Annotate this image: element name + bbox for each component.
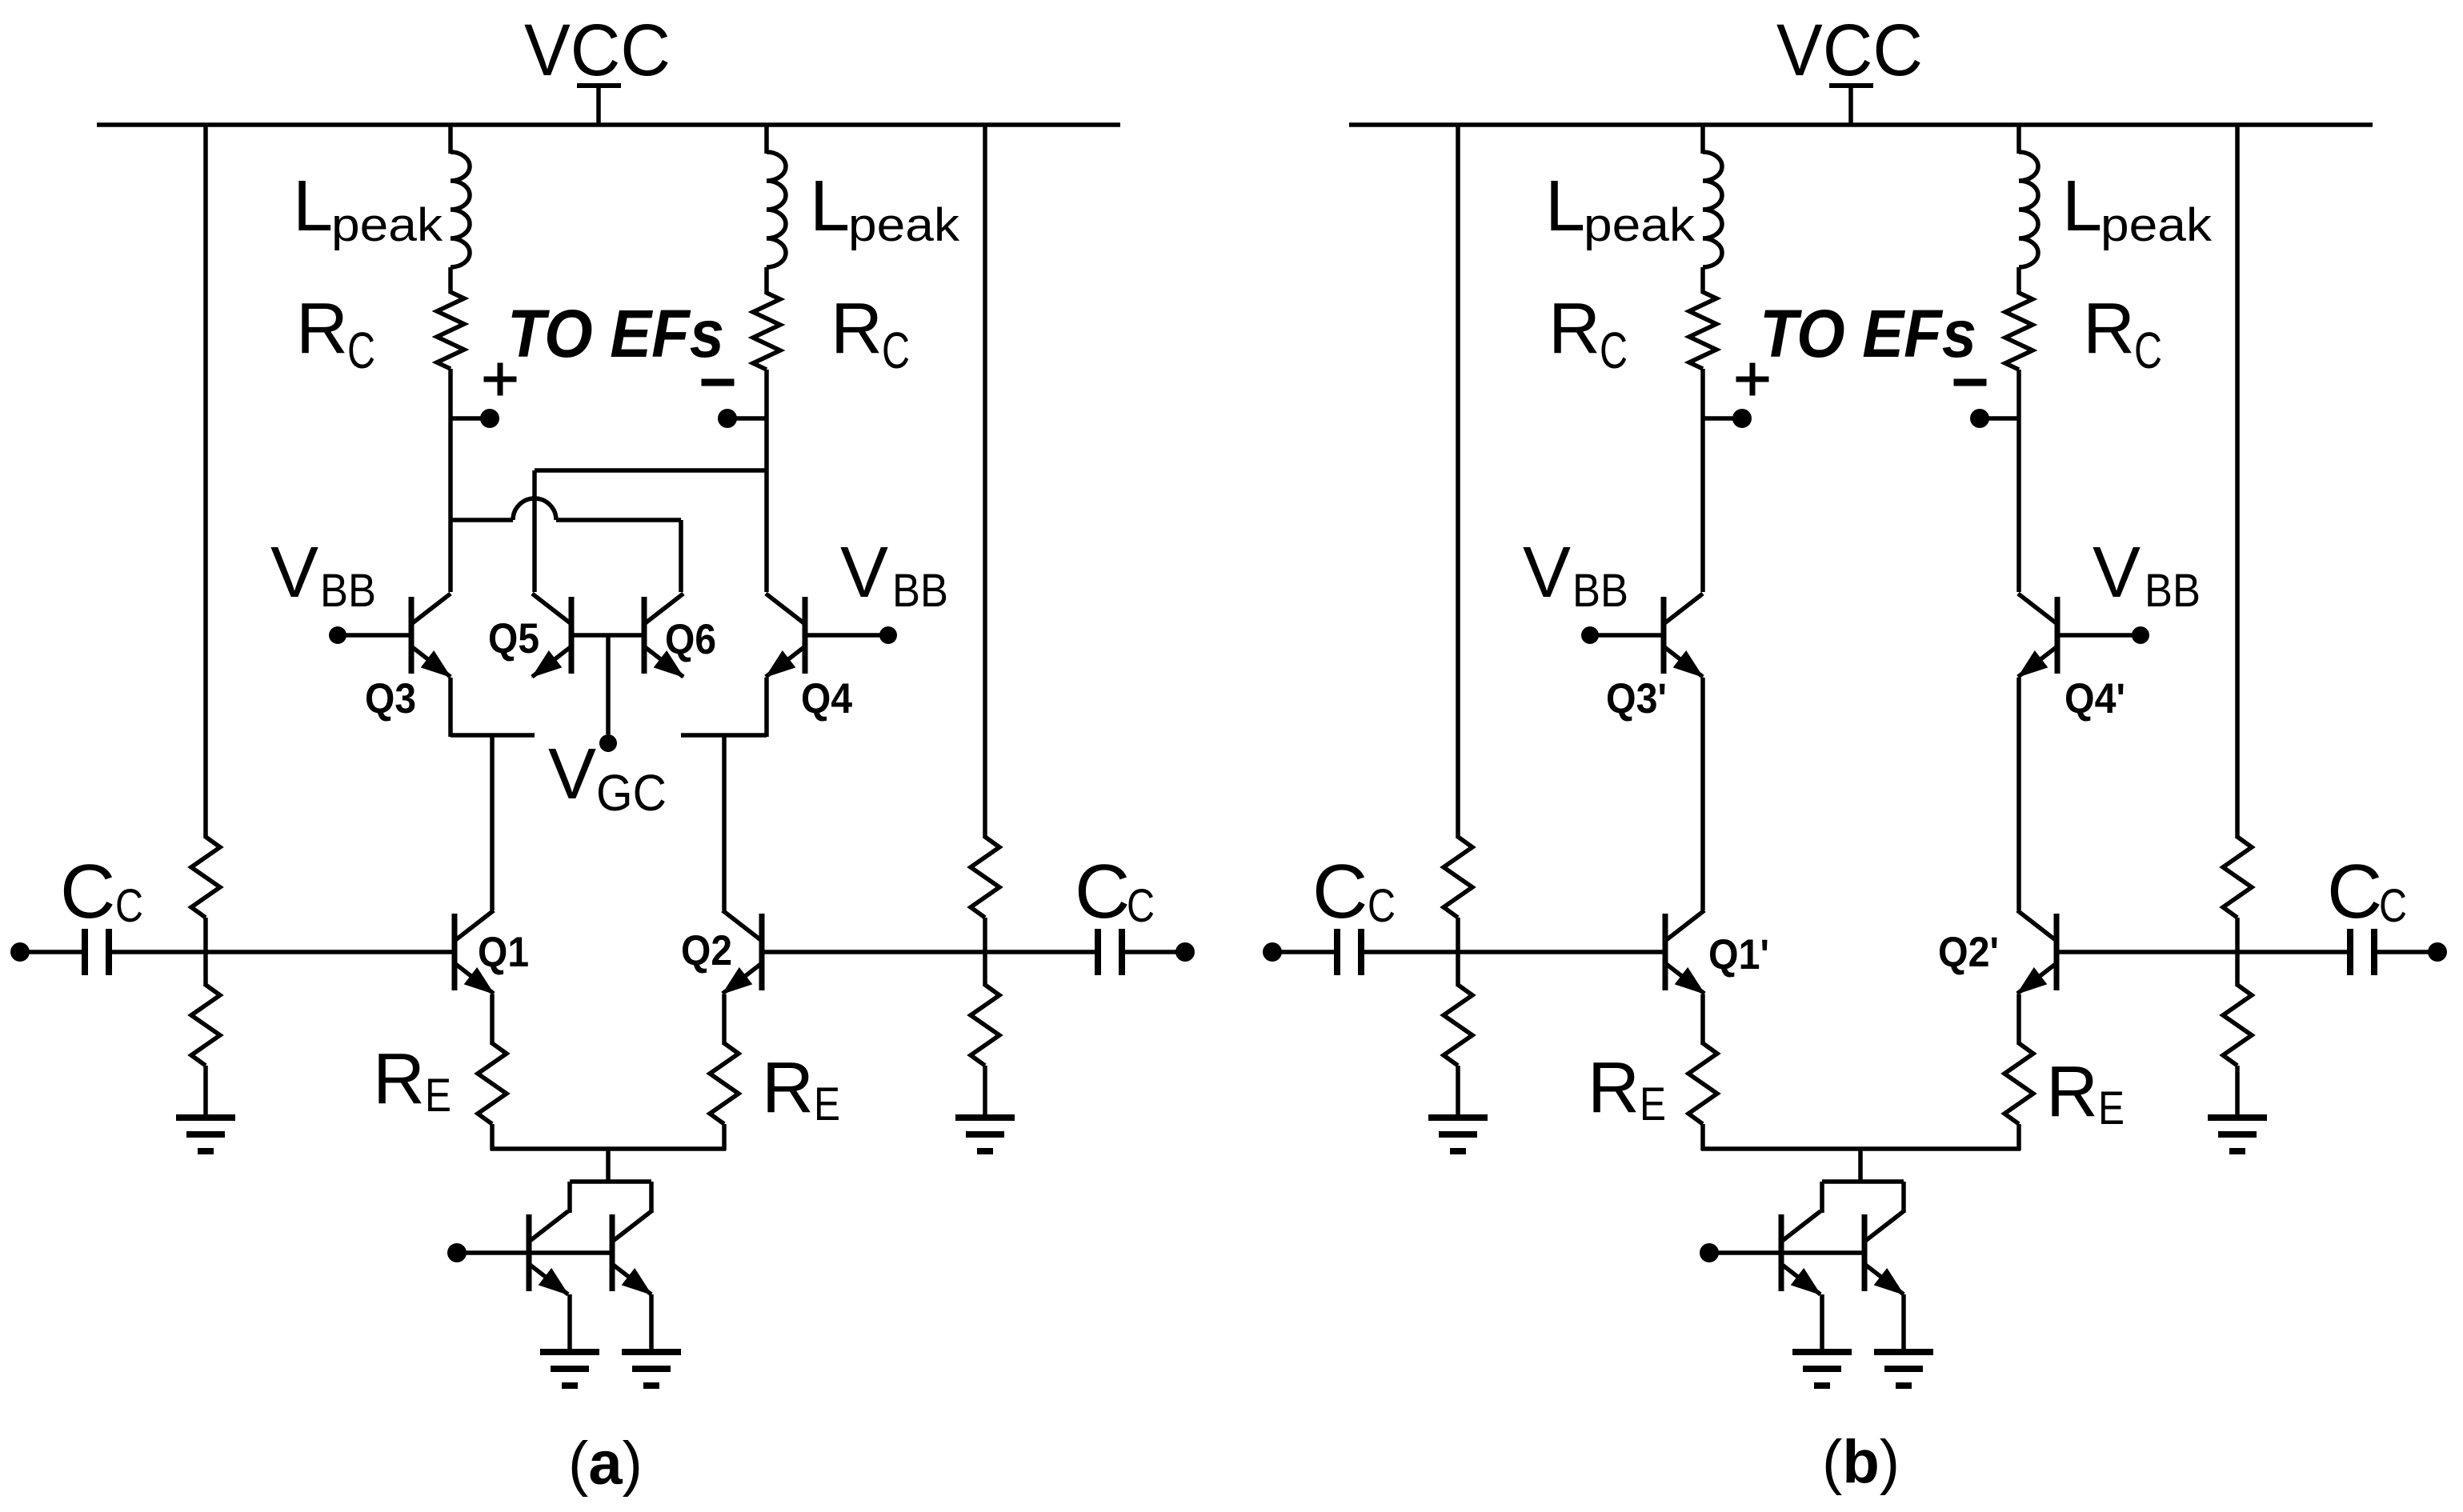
wire tail base	[457, 1250, 612, 1255]
wire input lead	[20, 950, 82, 954]
transistor Q5 collector	[532, 594, 571, 624]
inductor Lpeak right	[2019, 152, 2038, 267]
capacitor CC output	[2347, 929, 2353, 975]
svg-text:E: E	[425, 1070, 451, 1122]
transistor Q2' bar	[2054, 914, 2060, 990]
wire tail right collector	[1901, 1182, 1906, 1213]
svg-text:V: V	[548, 734, 596, 814]
transistor Q4' bar	[2055, 597, 2061, 674]
node output terminal	[2428, 942, 2447, 962]
transistor Q4 bar	[803, 597, 808, 674]
svg-text:C: C	[2379, 880, 2407, 932]
svg-text:Q3: Q3	[365, 675, 416, 722]
transistor tail mirror right emitter	[612, 1264, 651, 1294]
inductor Lpeak left	[451, 152, 470, 267]
transistor Q2' collector	[2017, 910, 2057, 941]
wire tail left emitter	[1820, 1294, 1824, 1354]
transistor tail mirror right collector	[612, 1211, 651, 1242]
inductor Lpeak right	[767, 152, 786, 267]
wire Q4' emitter to Q2' collector	[2016, 678, 2021, 910]
plus sign	[1736, 377, 1769, 382]
transistor Q3' collector	[1664, 594, 1703, 624]
transistor Q5 bar	[569, 597, 575, 674]
node - output dot	[1970, 409, 1989, 428]
wire left bias mid	[1456, 918, 1460, 986]
wire tail join	[491, 1146, 726, 1151]
wire input lead	[1272, 950, 1334, 954]
resistor RE right	[2004, 1043, 2033, 1124]
transistor Q4 collector	[766, 594, 805, 624]
svg-text:Q4: Q4	[801, 675, 852, 722]
node input terminal	[1263, 942, 1282, 962]
wire VCC rail	[97, 122, 1120, 127]
wire right branch from rail	[764, 125, 769, 154]
svg-text:C: C	[60, 849, 115, 934]
wire cross line B left	[451, 518, 513, 522]
ground tail left	[1792, 1349, 1852, 1355]
svg-text:Q2': Q2'	[1938, 929, 1999, 976]
svg-text:C: C	[1127, 880, 1155, 932]
svg-text:C: C	[1600, 322, 1628, 379]
transistor tail mirror left bar	[527, 1214, 532, 1291]
svg-text:BB: BB	[2145, 565, 2201, 617]
svg-text:E: E	[1640, 1078, 1666, 1130]
wire tail right emitter	[649, 1294, 654, 1354]
svg-text:R: R	[762, 1048, 814, 1128]
VCC supply symbol	[1829, 83, 1873, 88]
svg-text:R: R	[1588, 1048, 1640, 1128]
wire Q2 emitter to RE	[2016, 994, 2021, 1045]
wire left branch RC to cascode	[1700, 369, 1705, 592]
wire right bias mid	[2235, 918, 2240, 986]
transistor Q4 emitter	[766, 646, 805, 677]
svg-text:TO EFs: TO EFs	[507, 296, 724, 371]
svg-text:V: V	[2093, 533, 2141, 613]
node VBB left terminal	[329, 626, 346, 644]
resistor left bias lower	[191, 985, 220, 1066]
transistor tail mirror left emitter	[529, 1264, 568, 1294]
transistor Q1 collector	[455, 910, 494, 941]
transistor Q1' collector	[1665, 910, 1704, 941]
svg-text:L: L	[2062, 166, 2102, 246]
svg-text:BB: BB	[320, 565, 376, 617]
svg-text:R: R	[2083, 289, 2135, 369]
wire hop over Q5 collector	[513, 498, 556, 520]
wire right drop to Q2 collector	[722, 735, 727, 910]
svg-text:C: C	[2134, 322, 2162, 379]
plus sign	[484, 377, 517, 382]
svg-text:Q1: Q1	[478, 929, 529, 976]
wire tail collector rail	[1822, 1179, 1904, 1184]
svg-text:R: R	[1548, 289, 1600, 369]
transistor tail mirror right emitter	[1864, 1264, 1904, 1294]
wire left branch coil to RC	[448, 267, 453, 294]
node input terminal	[10, 942, 30, 962]
wire right branch RC to cascode	[764, 370, 769, 592]
svg-text:Q1': Q1'	[1708, 931, 1769, 978]
wire left bias to ground	[203, 1066, 208, 1118]
svg-text:Q5: Q5	[488, 615, 539, 662]
resistor RC right	[753, 293, 780, 370]
wire tail right emitter	[1901, 1294, 1906, 1354]
wire Q4 emitter down	[764, 678, 769, 737]
svg-text:BB: BB	[892, 565, 948, 617]
wire Q2 emitter to RE	[722, 994, 727, 1045]
resistor right bias upper	[971, 837, 999, 918]
transistor Q3' bar	[1661, 597, 1667, 674]
node + output stub	[1703, 416, 1733, 421]
wire VGC lead	[606, 635, 611, 734]
wire tail left emitter	[567, 1294, 572, 1354]
transistor tail mirror left collector	[529, 1211, 568, 1242]
node VBB right terminal	[879, 626, 897, 644]
transistor tail mirror right bar	[1862, 1214, 1868, 1291]
svg-text:V: V	[270, 533, 318, 613]
wire right bias to ground	[2235, 1066, 2240, 1118]
wire RE left to tail	[490, 1124, 495, 1150]
transistor tail mirror right collector	[1864, 1211, 1904, 1242]
wire right branch RC to cascode	[2016, 370, 2021, 592]
wire output lead	[1125, 950, 1176, 954]
svg-text:peak: peak	[2101, 199, 2213, 251]
wire left branch coil to RC	[1700, 267, 1705, 294]
svg-text:Q6: Q6	[665, 616, 716, 663]
transistor Q6 collector	[644, 594, 683, 624]
wire input to Q1 base	[112, 950, 455, 954]
svg-text:GC: GC	[596, 764, 667, 822]
node VGC terminal	[599, 734, 617, 752]
wire Q1 emitter to RE	[490, 994, 495, 1045]
ground tail right	[1874, 1349, 1933, 1355]
node VBB left terminal	[1581, 626, 1599, 644]
svg-text:Q3': Q3'	[1606, 675, 1667, 722]
wire tail join	[1701, 1146, 2020, 1151]
resistor RC left	[437, 292, 464, 369]
svg-text:C: C	[347, 322, 375, 379]
node output terminal	[1175, 942, 1195, 962]
wire tail drop	[606, 1149, 611, 1183]
wire Q3' emitter to Q1' collector	[1700, 678, 1705, 910]
svg-text:R: R	[2046, 1052, 2098, 1132]
node + output stub	[451, 416, 481, 421]
svg-text:VCC: VCC	[1776, 10, 1923, 91]
capacitor CC output	[1095, 929, 1101, 975]
wire RE left to tail	[1700, 1124, 1705, 1150]
transistor Q1' bar	[1663, 914, 1668, 990]
resistor left bias upper	[191, 837, 220, 918]
node tail bias terminal	[1700, 1243, 1719, 1262]
svg-text:C: C	[882, 322, 910, 379]
wire left branch from rail	[1700, 125, 1705, 154]
transistor Q2 emitter	[723, 963, 762, 994]
capacitor CC input	[1334, 929, 1340, 975]
wire tail left collector	[567, 1182, 572, 1213]
transistor tail mirror right bar	[610, 1214, 615, 1291]
svg-text:R: R	[296, 289, 348, 369]
wire input to Q1 base	[1364, 950, 1664, 954]
wire tail right collector	[649, 1182, 654, 1213]
ground tail left	[540, 1349, 599, 1355]
resistor left bias lower	[1444, 985, 1472, 1066]
svg-text:TO EFs: TO EFs	[1760, 296, 1976, 371]
transistor Q1 emitter	[455, 963, 494, 994]
wire left bias to ground	[1456, 1066, 1460, 1118]
svg-text:peak: peak	[848, 199, 960, 251]
svg-text:L: L	[293, 166, 333, 246]
svg-text:C: C	[115, 880, 143, 932]
resistor right bias lower	[2223, 985, 2252, 1066]
wire VCC rail	[1349, 122, 2373, 127]
svg-text:L: L	[1545, 166, 1585, 246]
wire left bias from rail	[203, 123, 208, 838]
node VBB right terminal	[2132, 626, 2149, 644]
wire right branch coil to RC	[764, 267, 769, 294]
transistor tail mirror left collector	[1781, 1211, 1820, 1242]
transistor Q3 collector	[411, 594, 451, 624]
ground left bias	[176, 1114, 235, 1121]
svg-text:L: L	[810, 166, 850, 246]
resistor right bias upper	[2223, 837, 2252, 918]
transistor Q4' collector	[2018, 594, 2057, 624]
wire left bias mid	[203, 918, 208, 986]
wire right emitter join bar	[681, 733, 767, 738]
resistor left bias upper	[1444, 837, 1472, 918]
transistor Q3 bar	[409, 597, 415, 674]
wire Q5 Q6 base tie	[571, 633, 644, 638]
svg-text:V: V	[840, 533, 888, 613]
wire right bias to ground	[983, 1066, 987, 1118]
wire left bias from rail	[1456, 123, 1460, 838]
resistor right bias lower	[971, 985, 999, 1066]
transistor Q2 bar	[759, 914, 765, 990]
node + output dot	[1732, 409, 1752, 428]
wire RE right to tail	[2016, 1124, 2021, 1150]
transistor Q3' emitter	[1664, 646, 1703, 677]
wire left branch from rail	[448, 125, 453, 154]
wire right bias mid	[983, 918, 987, 986]
svg-text:C: C	[1312, 849, 1368, 934]
transistor Q2' emitter	[2017, 963, 2057, 994]
svg-text:E: E	[2098, 1082, 2125, 1134]
wire VBB left to Q3 base	[1590, 633, 1664, 638]
wire cross line B right	[556, 518, 681, 522]
wire Q3 emitter down	[448, 678, 453, 737]
transistor tail mirror left emitter	[1781, 1264, 1820, 1294]
wire Q2 base to output cap	[2057, 950, 2347, 954]
resistor RC left	[1689, 292, 1716, 369]
node tail bias terminal	[447, 1243, 467, 1262]
svg-text:peak: peak	[1584, 199, 1696, 251]
svg-text:C: C	[2327, 849, 2382, 934]
svg-text:VCC: VCC	[524, 10, 671, 91]
transistor Q6 bar	[642, 597, 647, 674]
minus sign	[702, 379, 735, 386]
minus sign	[1954, 379, 1987, 386]
wire tail base	[1709, 1250, 1864, 1255]
node - output stub	[1988, 416, 2019, 421]
wire left drop to Q1 collector	[490, 735, 495, 910]
node - output dot	[718, 409, 737, 428]
wire right bias from rail	[2235, 123, 2240, 838]
svg-text:peak: peak	[331, 199, 443, 251]
resistor RE left	[1688, 1043, 1717, 1124]
resistor RE right	[710, 1043, 739, 1124]
svg-text:Q2: Q2	[681, 927, 732, 974]
inductor Lpeak left	[1703, 152, 1722, 267]
wire RE right to tail	[722, 1124, 727, 1150]
wire Q6 collector up	[679, 520, 683, 592]
svg-text:R: R	[373, 1039, 425, 1119]
svg-text:C: C	[1075, 849, 1130, 934]
svg-text:BB: BB	[1572, 565, 1628, 617]
node + output dot	[480, 409, 499, 428]
transistor Q6 emitter	[644, 646, 683, 677]
wire tail collector rail	[570, 1179, 651, 1184]
wire left emitter join bar	[451, 733, 535, 738]
wire output lead	[2377, 950, 2429, 954]
wire right bias from rail	[983, 123, 987, 838]
wire left branch RC to cascode	[448, 369, 453, 592]
svg-text:(b): (b)	[1822, 1428, 1900, 1496]
wire VBB left to Q3 base	[338, 633, 411, 638]
node - output stub	[736, 416, 767, 421]
transistor Q5 emitter	[532, 646, 571, 677]
wire Q2 base to output cap	[762, 950, 1095, 954]
wire Q5 collector up	[532, 470, 537, 592]
transistor Q1' emitter	[1665, 963, 1704, 994]
svg-text:C: C	[1368, 880, 1396, 932]
wire VBB right to Q4 base	[2057, 633, 2141, 638]
transistor Q4' emitter	[2018, 646, 2057, 677]
VCC supply symbol	[577, 83, 621, 88]
ground left bias	[1428, 1114, 1488, 1121]
wire Q1 emitter to RE	[1700, 994, 1705, 1045]
svg-text:E: E	[814, 1078, 840, 1130]
resistor RC right	[2005, 293, 2032, 370]
transistor Q1 bar	[452, 914, 458, 990]
svg-text:V: V	[1523, 533, 1571, 613]
svg-text:(a): (a)	[568, 1430, 643, 1498]
wire VBB right to Q4 base	[805, 633, 888, 638]
wire right branch coil to RC	[2016, 267, 2021, 294]
wire right branch from rail	[2016, 125, 2021, 154]
wire tail drop	[1858, 1149, 1863, 1183]
transistor Q3 emitter	[411, 646, 451, 677]
ground right bias	[955, 1114, 1015, 1121]
svg-text:Q4': Q4'	[2065, 675, 2125, 722]
wire tail left collector	[1820, 1182, 1824, 1213]
capacitor CC input	[82, 929, 88, 975]
svg-text:R: R	[831, 289, 883, 369]
ground right bias	[2208, 1114, 2267, 1121]
transistor Q2 collector	[723, 910, 762, 941]
wire cross line A	[535, 468, 767, 473]
resistor RE left	[478, 1043, 507, 1124]
ground tail right	[622, 1349, 681, 1355]
transistor tail mirror left bar	[1779, 1214, 1784, 1291]
